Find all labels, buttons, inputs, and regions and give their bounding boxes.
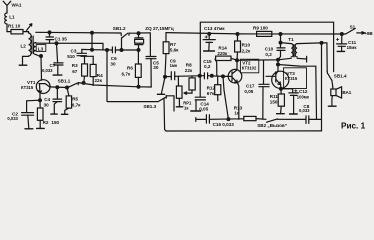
wire VT2 collector node bbox=[237, 59, 278, 62]
ground (R5) bbox=[61, 113, 67, 115]
switch S2 (call) bbox=[267, 119, 306, 122]
label R11 150 bbox=[270, 94, 279, 104]
svg-text:Рис. 1: Рис. 1 bbox=[341, 121, 366, 130]
svg-text:КТ315: КТ315 bbox=[285, 76, 298, 81]
ground (C2) bbox=[25, 128, 33, 130]
svg-text:S1: S1 bbox=[350, 24, 356, 29]
svg-text:R6: R6 bbox=[127, 65, 133, 70]
svg-text:R12: R12 bbox=[207, 86, 216, 91]
node VT2 base bbox=[221, 74, 225, 78]
wire VT3 collector bbox=[277, 60, 279, 65]
svg-text:1мк: 1мк bbox=[170, 63, 178, 68]
node C16/VT2 bbox=[226, 117, 230, 121]
svg-text:L2: L2 bbox=[21, 44, 27, 49]
switch SB1.4 bbox=[327, 72, 333, 87]
trimmer RP1 bbox=[176, 86, 192, 106]
svg-text:WA1: WA1 bbox=[12, 2, 22, 7]
resistor R6 bbox=[135, 50, 141, 87]
node VT1 emitter bbox=[38, 98, 42, 102]
svg-text:T1: T1 bbox=[288, 37, 294, 42]
transistor VT3 bbox=[266, 65, 289, 89]
capacitor C17 bbox=[259, 60, 269, 119]
capacitor C5 bbox=[146, 57, 156, 88]
node C1 top bbox=[48, 30, 52, 34]
wire rail y43 bbox=[36, 43, 103, 50]
label C14 0,05 bbox=[199, 101, 209, 111]
label C10 0,2 bbox=[265, 46, 274, 57]
ground (C14) bbox=[191, 110, 201, 112]
ground (R11) bbox=[277, 113, 285, 115]
label VT2 KT3102 bbox=[242, 60, 257, 70]
wire line A bbox=[315, 66, 318, 119]
capacitor C15 bbox=[204, 73, 207, 79]
svg-text:C13 47мк: C13 47мк bbox=[204, 26, 225, 31]
svg-text:R11: R11 bbox=[270, 94, 279, 99]
resistor R10 bbox=[235, 34, 241, 60]
label C4 30 bbox=[44, 97, 51, 107]
node x121.5 bbox=[120, 48, 124, 52]
svg-text:6,7к: 6,7к bbox=[72, 103, 81, 108]
svg-text:220к: 220к bbox=[217, 51, 228, 56]
svg-text:+9В: +9В bbox=[364, 31, 373, 36]
svg-text:R8: R8 bbox=[186, 62, 192, 67]
svg-text:КТ315: КТ315 bbox=[21, 85, 34, 90]
label R4 22k bbox=[95, 73, 104, 83]
wire collector line y87 bbox=[139, 86, 152, 88]
node C10 top bbox=[279, 41, 283, 45]
wire bottom line bbox=[166, 130, 322, 132]
capacitor C9 bbox=[171, 72, 174, 80]
capacitor C12 bbox=[281, 89, 298, 114]
wire rail to C5 bbox=[139, 33, 151, 56]
node R5 top bbox=[65, 86, 69, 90]
wire C15 right bbox=[200, 75, 223, 78]
capacitor C2 bbox=[22, 100, 40, 128]
label RP1 1k bbox=[183, 101, 192, 111]
capacitor C3 bbox=[77, 49, 93, 56]
svg-text:22к: 22к bbox=[185, 68, 193, 73]
svg-text:C16 0,033: C16 0,033 bbox=[213, 122, 235, 127]
transformer tuning arrow bbox=[27, 24, 32, 31]
svg-text:ZQ 27,15МГц: ZQ 27,15МГц bbox=[145, 26, 174, 31]
ground (C13) bbox=[204, 50, 215, 52]
resistor R1 bbox=[7, 30, 29, 34]
node R6 bottom bbox=[137, 85, 141, 89]
label C5 36 bbox=[153, 60, 159, 70]
svg-text:SB1.4: SB1.4 bbox=[334, 74, 347, 79]
resistor R9 bbox=[257, 31, 272, 36]
wire T1 secondary tap bbox=[278, 65, 316, 67]
svg-text:0,033: 0,033 bbox=[299, 108, 310, 113]
resistor R8 bbox=[189, 76, 195, 90]
wire line B bbox=[321, 43, 323, 131]
svg-text:0,05: 0,05 bbox=[199, 106, 208, 111]
label R5 6,7k bbox=[72, 97, 81, 108]
node R7 bottom bbox=[163, 75, 167, 79]
switch SB1.3 bbox=[158, 96, 174, 111]
wire corner to SB1.4 bbox=[322, 43, 328, 72]
resistor R7 bbox=[163, 33, 169, 77]
VT3 label box bbox=[284, 68, 307, 89]
svg-text:0,2: 0,2 bbox=[204, 64, 211, 69]
wire x107 down bbox=[107, 50, 158, 102]
label C8 0,033 bbox=[299, 104, 310, 113]
wire C16 to R13 bbox=[209, 118, 243, 121]
label R2 150 bbox=[43, 120, 60, 125]
label R10 2,2k bbox=[242, 43, 251, 54]
switch SB1.1 bbox=[69, 83, 79, 88]
label C6 30 bbox=[110, 56, 117, 66]
svg-text:30: 30 bbox=[110, 61, 116, 66]
label C2 0,033 bbox=[7, 111, 18, 121]
wire after SB1.1 bbox=[78, 83, 138, 87]
svg-text:C1 35: C1 35 bbox=[55, 37, 68, 42]
resistor R12 bbox=[215, 76, 221, 101]
wire to RP1 top bbox=[177, 76, 179, 86]
ground (RP1) bbox=[176, 106, 182, 108]
svg-text:L1: L1 bbox=[9, 15, 15, 20]
node (L3 / VT1 base) bbox=[39, 54, 43, 58]
svg-text:C12: C12 bbox=[299, 89, 308, 94]
capacitor C10 bbox=[277, 43, 285, 60]
label C15 0,2 bbox=[203, 59, 212, 69]
label R6 6,7k bbox=[122, 65, 134, 76]
node C15 right bbox=[210, 74, 214, 78]
capacitor C16 bbox=[206, 115, 209, 123]
switch S1 bbox=[342, 28, 365, 34]
node x107 bbox=[105, 48, 109, 52]
wire C16 feed bbox=[196, 118, 207, 122]
label C17 0,05 bbox=[244, 84, 254, 94]
resistor R14 bbox=[215, 56, 237, 76]
VT2 label box bbox=[240, 59, 258, 73]
svg-text:SB1.1: SB1.1 bbox=[58, 78, 71, 83]
transformer L3 winding bbox=[33, 43, 35, 55]
label C9 1mk bbox=[170, 59, 178, 68]
switch SB1.2 bbox=[121, 33, 139, 38]
antenna WA1 bbox=[3, 1, 11, 11]
wire y76.4 bbox=[165, 75, 200, 78]
svg-text:R3: R3 bbox=[72, 63, 78, 68]
svg-text:SВ2 „Вызов”: SВ2 „Вызов” bbox=[257, 123, 287, 128]
wire SB1.2 contact down bbox=[121, 38, 123, 50]
ground (R2) bbox=[37, 127, 45, 129]
ground (C11) bbox=[337, 50, 344, 52]
capacitor C7 bbox=[54, 43, 63, 74]
svg-text:6,7к: 6,7к bbox=[122, 72, 131, 77]
node C7 top bbox=[55, 41, 59, 45]
node feedback/C15 bbox=[198, 74, 202, 78]
svg-text:ВА1: ВА1 bbox=[342, 90, 351, 95]
inductor L1 bbox=[5, 11, 7, 32]
label R14 220k bbox=[217, 46, 228, 57]
svg-text:100мк: 100мк bbox=[297, 95, 310, 100]
node C4 top bbox=[55, 85, 59, 89]
svg-text:2,2к: 2,2к bbox=[242, 48, 251, 53]
label VT1 KT315 bbox=[21, 80, 36, 90]
label R8 22k bbox=[185, 62, 193, 73]
node R3 bottom bbox=[82, 81, 86, 85]
capacitor C8 bbox=[306, 116, 309, 124]
svg-text:0,05: 0,05 bbox=[244, 89, 253, 94]
svg-text:150: 150 bbox=[270, 100, 278, 105]
capacitor C1 bbox=[46, 32, 54, 43]
transformer L2 winding bbox=[29, 33, 32, 56]
node rail S1 bbox=[340, 32, 344, 36]
label C11 10mk bbox=[347, 40, 358, 50]
svg-text:КТ3102: КТ3102 bbox=[242, 66, 257, 71]
node rail T1 bbox=[279, 32, 283, 36]
svg-text:1к: 1к bbox=[234, 111, 240, 116]
resistor R11 bbox=[278, 89, 284, 113]
speaker BA1 bbox=[331, 87, 342, 106]
svg-text:67к: 67к bbox=[207, 91, 215, 96]
wire top rail y32 bbox=[36, 31, 121, 34]
svg-text:0,2: 0,2 bbox=[265, 52, 272, 57]
ground (osc) bbox=[157, 77, 165, 94]
svg-text:30: 30 bbox=[44, 102, 50, 107]
svg-text:22к: 22к bbox=[95, 78, 103, 83]
label C12 100mk bbox=[297, 89, 310, 99]
wire lower y50 bbox=[92, 49, 112, 51]
svg-text:0,033: 0,033 bbox=[42, 68, 53, 73]
svg-text:R9 100: R9 100 bbox=[253, 26, 268, 31]
svg-text:5,6к: 5,6к bbox=[170, 47, 179, 52]
resistor R3 bbox=[82, 56, 88, 83]
svg-text:R1 10: R1 10 bbox=[8, 24, 21, 29]
L3 label box bbox=[36, 45, 46, 52]
svg-text:0,033: 0,033 bbox=[7, 116, 18, 121]
label C3 510 bbox=[67, 49, 77, 59]
svg-text:510: 510 bbox=[67, 54, 75, 59]
label R7 5,6k bbox=[170, 42, 179, 52]
wire collector VT1 bbox=[50, 86, 67, 89]
label R3 67 bbox=[72, 63, 78, 74]
ground (C4) bbox=[51, 113, 57, 115]
capacitor C6 bbox=[112, 47, 115, 53]
wire C14 lead bbox=[199, 76, 201, 97]
node C13 rail bbox=[207, 32, 211, 36]
label VT3 KT315 bbox=[285, 71, 298, 81]
svg-text:30: 30 bbox=[153, 65, 159, 70]
ground (C12) bbox=[290, 113, 298, 115]
label C7 0,033 bbox=[42, 63, 56, 73]
transistor VT2 bbox=[223, 60, 242, 119]
svg-text:10мк: 10мк bbox=[347, 45, 358, 50]
wire base to C16 bbox=[223, 76, 228, 119]
svg-text:67: 67 bbox=[72, 69, 78, 74]
resistor R5 bbox=[65, 88, 72, 114]
svg-text:C3: C3 bbox=[71, 49, 77, 54]
svg-text:SB1.3: SB1.3 bbox=[143, 104, 156, 109]
svg-text:SB1.2: SB1.2 bbox=[113, 26, 126, 31]
transformer core bbox=[32, 36, 33, 54]
ground (L2 bottom) bbox=[19, 56, 28, 65]
node VT3 emitter bbox=[279, 87, 283, 91]
capacitor C11 bbox=[336, 34, 346, 51]
svg-text:C4: C4 bbox=[44, 97, 50, 102]
node VT3 base bbox=[276, 63, 280, 67]
svg-text:R5: R5 bbox=[72, 97, 78, 102]
label R12 67k bbox=[207, 86, 216, 96]
transistor VT1 bbox=[36, 80, 50, 100]
node C3 top bbox=[90, 48, 94, 52]
wire SB1.3 to bottom line bbox=[164, 99, 166, 131]
crystal ZQ1 bbox=[135, 33, 144, 50]
node rail/crystal bbox=[137, 31, 141, 35]
capacitor C14 bbox=[195, 97, 205, 110]
wire VT1 base bbox=[40, 56, 43, 80]
node crystal bottom bbox=[137, 48, 141, 52]
svg-text:R2: R2 bbox=[43, 120, 49, 125]
wire x92 down bbox=[91, 33, 93, 50]
svg-text:R10: R10 bbox=[242, 43, 251, 48]
node x92 top bbox=[90, 31, 94, 35]
label R13 1k bbox=[234, 105, 243, 115]
ground (C7) bbox=[53, 74, 62, 76]
node R10 top bbox=[236, 32, 240, 36]
capacitor C4 bbox=[53, 87, 62, 113]
svg-text:L3: L3 bbox=[38, 46, 44, 51]
svg-text:R14: R14 bbox=[218, 46, 227, 51]
wire rail down to T1 bbox=[280, 34, 282, 43]
svg-text:150: 150 bbox=[51, 120, 59, 125]
wire L3 bottom to node bbox=[36, 55, 41, 56]
capacitor C13 bbox=[203, 34, 215, 51]
svg-text:C10: C10 bbox=[265, 46, 274, 51]
node T1 top right bbox=[320, 41, 324, 45]
wire osc supply rail bbox=[166, 33, 342, 34]
wire C8 to line B bbox=[309, 118, 322, 120]
resistor R13 bbox=[244, 116, 266, 120]
ground (BA1) bbox=[328, 105, 336, 107]
transformer T1 bbox=[278, 43, 322, 62]
resistor R2 bbox=[37, 100, 43, 128]
node T1 primary bottom bbox=[276, 58, 280, 62]
node VT2 collector/R10 bbox=[235, 58, 239, 62]
resistor R4 bbox=[90, 56, 96, 85]
feedback wire box path bbox=[200, 22, 333, 76]
